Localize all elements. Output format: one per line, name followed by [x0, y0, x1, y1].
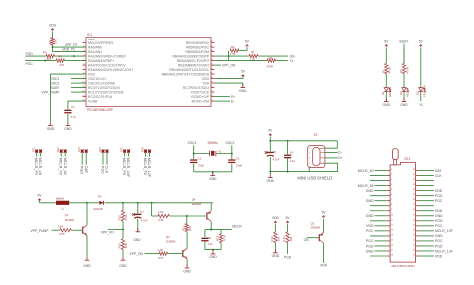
wire: [403, 47, 405, 63]
jumper JP4: [102, 149, 105, 153]
svg-text:R12: R12: [270, 236, 274, 242]
LED D2 RED: [402, 88, 406, 92]
svg-text:C1: C1: [71, 105, 75, 109]
svg-text:C3: C3: [236, 156, 240, 160]
svg-text:22: 22: [210, 68, 212, 70]
svg-text:20: 20: [210, 77, 212, 79]
wire crystal row: [194, 153, 210, 155]
ZX1 pin row 13: [387, 230, 390, 232]
ground: [186, 264, 188, 268]
svg-text:GND: GND: [239, 89, 247, 93]
wire JP5 pin nets: [124, 153, 126, 157]
svg-text:GN: GN: [290, 54, 296, 58]
transistor Q2 2N3904: [182, 250, 184, 257]
resistor R12 10K: [274, 232, 277, 243]
svg-text:BUSY: BUSY: [50, 86, 60, 90]
svg-text:4.7uF: 4.7uF: [273, 157, 280, 161]
svg-text:C5: C5: [273, 150, 277, 154]
svg-text:6: 6: [391, 194, 392, 196]
ZX1 pin row 2: [387, 175, 390, 177]
resistor R11 10K vertical: [186, 216, 188, 224]
svg-text:RB1/AN10/INT1/SCK/SCL: RB1/AN10/INT1/SCK/SCL: [169, 68, 209, 72]
svg-text:10K: 10K: [124, 243, 128, 248]
wire: [385, 47, 387, 63]
svg-text:GND: GND: [366, 189, 374, 193]
jumper JP2: [60, 149, 63, 153]
wire 5V rail: [270, 140, 337, 142]
svg-text:DAT: DAT: [84, 166, 88, 174]
svg-text:OSC1: OSC1: [50, 77, 59, 81]
wire JP1 pin nets: [36, 153, 38, 157]
wire: [420, 47, 422, 87]
ground: [50, 122, 52, 126]
wire R10 to Q1 base: [71, 229, 82, 231]
ground: [242, 84, 244, 88]
svg-text:Q1: Q1: [65, 213, 69, 217]
node VPP_ON label pin23: [214, 64, 221, 66]
svg-text:34: 34: [413, 179, 415, 181]
svg-text:R5: R5: [59, 55, 63, 59]
wire to YL with R3 from pin24: [228, 56, 230, 61]
svg-text:MCLR_12F: MCLR_12F: [147, 158, 151, 178]
svg-text:21: 21: [210, 73, 212, 75]
svg-text:C4: C4: [290, 150, 294, 154]
svg-text:MINI USB SHIELD: MINI USB SHIELD: [297, 176, 332, 181]
wire net VDD_P2 to pin 3: [53, 51, 87, 53]
svg-text:16: 16: [391, 244, 393, 246]
svg-text:24: 24: [413, 229, 415, 231]
ZX1 pin row 1: [387, 170, 390, 172]
svg-text:GND: GND: [383, 103, 391, 107]
svg-text:RC6/TX/CK: RC6/TX/CK: [191, 90, 209, 94]
svg-text:17: 17: [210, 91, 212, 93]
svg-text:JP6: JP6: [141, 147, 145, 152]
ZX1 pin row 4: [387, 185, 390, 187]
node D- wire pin15: [214, 100, 230, 102]
svg-text:VPP_P2: VPP_P2: [65, 43, 78, 47]
resistor R16 10K: [121, 239, 124, 250]
svg-text:D4: D4: [98, 195, 102, 199]
node BUSY wire to pin 11: [71, 87, 86, 89]
capacitor C3 27pF: [231, 154, 233, 160]
transistor Q1 2N3904: [86, 203, 88, 225]
svg-text:RB7/KBI3/PGD: RB7/KBI3/PGD: [186, 41, 210, 45]
svg-text:3: 3: [391, 179, 392, 181]
wire JP4 pin nets: [102, 153, 104, 165]
svg-text:RC0/T1OSO/T13CKI: RC0/T1OSO/T13CKI: [88, 86, 120, 90]
wire pin20 VDD to 5V: [214, 78, 243, 80]
wire to R17: [145, 253, 160, 255]
svg-text:23: 23: [210, 64, 212, 66]
node OSC2 wire to pin 10: [71, 82, 86, 84]
svg-text:Q4: Q4: [192, 197, 196, 201]
svg-text:GND: GND: [64, 127, 72, 131]
ground: [137, 228, 139, 232]
svg-text:26: 26: [210, 50, 212, 52]
wire R14 to Q4 base: [169, 215, 207, 217]
svg-text:PGC: PGC: [366, 229, 374, 233]
svg-text:VPP_ON: VPP_ON: [222, 63, 236, 67]
svg-text:4.7u: 4.7u: [71, 115, 77, 119]
svg-text:D+: D+: [231, 95, 235, 99]
svg-text:VSS: VSS: [88, 72, 96, 76]
svg-text:OSC2: OSC2: [226, 141, 235, 145]
ZX1 pin row 12: [387, 225, 390, 227]
resistor R9 10K pullup: [51, 38, 54, 46]
crystal X1 symbol: [210, 151, 216, 157]
svg-text:27pF: 27pF: [236, 164, 242, 168]
svg-text:MCLR_P2: MCLR_P2: [59, 158, 63, 176]
node VPP_FD label wire: [108, 228, 123, 230]
svg-text:470R: 470R: [388, 67, 392, 74]
resistor R15 4.7K: [121, 210, 124, 221]
ground: [86, 256, 88, 260]
svg-text:RA1/AN1: RA1/AN1: [88, 50, 102, 54]
wire 5V to L1: [40, 202, 57, 204]
jumper JP5: [123, 149, 126, 153]
svg-text:24: 24: [210, 59, 212, 61]
wire Q4 collector down: [210, 221, 212, 229]
svg-text:X2: X2: [314, 133, 318, 137]
svg-text:36: 36: [413, 169, 415, 171]
svg-text:GND: GND: [47, 127, 55, 131]
svg-text:GND: GND: [183, 269, 191, 273]
wire pin19 VSS to ground: [214, 83, 242, 87]
svg-text:1: 1: [83, 41, 84, 43]
wire VUSB pin14 to C1: [68, 101, 86, 110]
svg-text:18: 18: [210, 86, 212, 88]
svg-text:Q2: Q2: [166, 235, 170, 239]
svg-text:GND: GND: [267, 179, 275, 183]
capacitor C1 4.7u: [64, 110, 71, 111]
svg-text:8: 8: [391, 204, 392, 206]
svg-text:R4: R4: [43, 50, 47, 54]
wire JP6 pin nets: [145, 153, 147, 157]
svg-text:RB6/KBI2/PGC: RB6/KBI2/PGC: [186, 45, 210, 49]
svg-text:13: 13: [391, 229, 393, 231]
svg-text:VPP_PUMP: VPP_PUMP: [31, 229, 50, 233]
resistor R6 470R: [402, 63, 405, 73]
svg-text:R10: R10: [60, 232, 65, 236]
wire pin25 to GN with R1: [214, 55, 249, 57]
capacitor C5 4.7uF polarized: [269, 141, 271, 152]
svg-text:1.0K: 1.0K: [158, 248, 164, 252]
ground: [403, 98, 405, 102]
wire JP3 pin nets: [81, 153, 83, 165]
svg-text:MCLR_10F: MCLR_10F: [435, 229, 453, 233]
svg-text:RED: RED: [406, 91, 410, 97]
svg-text:7: 7: [83, 68, 84, 70]
svg-text:1.0u: 1.0u: [208, 242, 214, 246]
svg-text:RA0/AN0: RA0/AN0: [88, 45, 102, 49]
svg-text:D-: D-: [231, 99, 234, 103]
ZX1 pin row 9: [387, 210, 390, 212]
svg-text:RC5/D+/VP: RC5/D+/VP: [191, 95, 209, 99]
ZX1 pin row 18: [387, 255, 390, 257]
svg-text:D3: D3: [416, 91, 420, 95]
svg-text:GND: GND: [366, 249, 374, 253]
svg-text:VDD: VDD: [272, 216, 280, 220]
resistor R4 470: [46, 54, 55, 57]
svg-text:1.5K: 1.5K: [230, 52, 236, 56]
connector ZX1 ZIF socket body: [390, 163, 416, 263]
svg-text:16: 16: [210, 95, 212, 97]
wire VPP rail: [104, 202, 213, 204]
svg-text:MCLR: MCLR: [232, 225, 242, 229]
svg-text:RB4/AN11/KBI0/CSSPP: RB4/AN11/KBI0/CSSPP: [173, 54, 210, 58]
wire bottom join: [205, 249, 221, 251]
ZX1 pin row 17: [387, 250, 390, 252]
svg-text:YL: YL: [290, 59, 294, 63]
wire VBUS jog right side: [325, 141, 337, 148]
svg-text:21: 21: [413, 244, 415, 246]
svg-text:RC1/T1OSI/CCP2/UOE: RC1/T1OSI/CCP2/UOE: [88, 90, 125, 94]
svg-text:35: 35: [413, 174, 415, 176]
resistor R14 1.0K: [158, 214, 169, 217]
svg-text:PGD: PGD: [435, 244, 443, 248]
svg-text:OSC2/CLKO/RA6: OSC2/CLKO/RA6: [88, 81, 115, 85]
svg-text:PGD: PGD: [80, 166, 84, 174]
svg-text:680uH: 680uH: [56, 196, 64, 200]
svg-text:1.6K: 1.6K: [58, 225, 64, 229]
ground: [212, 172, 214, 176]
ground: [385, 98, 387, 102]
svg-text:MCLR_P2: MCLR_P2: [122, 158, 126, 176]
svg-text:GND: GND: [133, 238, 141, 242]
svg-text:12: 12: [391, 224, 393, 226]
svg-text:28: 28: [210, 41, 212, 43]
svg-text:MCLR_P2: MCLR_P2: [143, 158, 147, 176]
svg-text:9: 9: [391, 209, 392, 211]
svg-text:GND: GND: [209, 255, 217, 259]
wire R11 to Q2 collector: [186, 232, 188, 249]
svg-text:11: 11: [391, 219, 393, 221]
diode D4 1N4148: [99, 201, 103, 205]
svg-text:L1: L1: [61, 207, 64, 211]
svg-text:MCLR_18: MCLR_18: [358, 184, 374, 188]
svg-text:GND: GND: [83, 264, 91, 268]
svg-text:PGD: PGD: [366, 244, 374, 248]
wire Q1 emitter to ground: [86, 236, 88, 257]
svg-text:RA5/AN4/SS/HLVDIN/C2OUT: RA5/AN4/SS/HLVDIN/C2OUT: [88, 68, 133, 72]
svg-text:23: 23: [413, 234, 415, 236]
svg-text:1: 1: [391, 169, 392, 171]
wire VSS pin8 to ground: [51, 74, 87, 122]
svg-text:R13: R13: [282, 236, 286, 242]
svg-text:OSC1: OSC1: [188, 141, 197, 145]
svg-text:C8: C8: [208, 236, 212, 240]
wire to R10: [52, 229, 60, 231]
svg-text:470R: 470R: [267, 65, 273, 69]
svg-text:VDD: VDD: [366, 224, 374, 228]
svg-text:31: 31: [413, 194, 415, 196]
svg-text:25: 25: [413, 224, 415, 226]
op-amp U1 main MCU IC1 PIC18F2550 box: [86, 38, 211, 107]
ZX1 pin row 8: [387, 205, 390, 207]
svg-text:470: 470: [60, 63, 65, 67]
svg-text:R9: R9: [48, 40, 52, 44]
svg-text:RC2/CCP1/P1A: RC2/CCP1/P1A: [88, 95, 113, 99]
wire rail to divider: [122, 203, 124, 211]
wire Q3 emitter to 5V: [323, 219, 325, 233]
resistor R17 1.0K: [159, 252, 168, 255]
svg-text:OSC1/CLKI: OSC1/CLKI: [88, 77, 106, 81]
svg-text:22: 22: [413, 239, 415, 241]
svg-text:R1: R1: [251, 50, 255, 54]
svg-text:13: 13: [82, 95, 84, 97]
svg-text:JP1: JP1: [32, 147, 36, 152]
svg-text:VDD: VDD: [320, 263, 328, 267]
svg-text:R7: R7: [381, 69, 385, 73]
svg-text:VDD: VDD: [435, 209, 443, 213]
svg-text:2N3906: 2N3906: [311, 225, 321, 229]
svg-text:4.7K: 4.7K: [124, 214, 128, 220]
ground: [67, 122, 69, 126]
svg-text:PGC: PGC: [100, 166, 104, 174]
svg-text:RC4/D-/VM: RC4/D-/VM: [192, 99, 210, 103]
svg-text:27: 27: [210, 46, 212, 48]
svg-text:IC1: IC1: [87, 33, 92, 37]
node D+ wire: [325, 157, 338, 159]
svg-text:MCLR_10F: MCLR_10F: [126, 158, 130, 178]
node GN wire to Q3 base: [307, 237, 320, 239]
resistor R19 4.7K vertical: [220, 230, 222, 234]
svg-text:MCLR_18: MCLR_18: [38, 158, 42, 175]
svg-text:VDD: VDD: [435, 254, 443, 258]
svg-text:2N3906: 2N3906: [192, 202, 202, 206]
svg-text:MCLR/VPP/RE3: MCLR/VPP/RE3: [88, 41, 113, 45]
svg-text:19: 19: [210, 82, 212, 84]
svg-text:YL: YL: [419, 103, 423, 107]
svg-text:R3: R3: [269, 56, 273, 60]
ZX1 pin row 7: [387, 200, 390, 202]
wire net VPP_P2 to pin 2: [53, 46, 87, 48]
svg-text:10: 10: [391, 214, 393, 216]
wire L1 to D4: [69, 202, 99, 204]
svg-text:VDD: VDD: [435, 189, 443, 193]
svg-text:RB0/AN12/INT0/FLT0/SDI/SDA: RB0/AN12/INT0/FLT0/SDI/SDA: [162, 72, 210, 76]
svg-text:10K: 10K: [188, 226, 192, 231]
svg-text:PGC: PGC: [366, 239, 374, 243]
svg-text:27: 27: [413, 214, 415, 216]
capacitor C4 1.0u: [287, 141, 289, 155]
wire R17 to Q2 base: [168, 253, 183, 255]
svg-text:BUSY: BUSY: [400, 39, 410, 43]
svg-text:PIC18F2550-I/SP: PIC18F2550-I/SP: [87, 108, 114, 112]
svg-text:JP2: JP2: [56, 147, 60, 152]
wire pin4 to ground rail: [325, 163, 338, 171]
svg-text:VDD: VDD: [202, 77, 210, 81]
svg-text:PGD: PGD: [435, 194, 443, 198]
svg-text:2: 2: [391, 174, 392, 176]
svg-text:PGD: PGD: [435, 219, 443, 223]
svg-text:CLK: CLK: [105, 166, 109, 174]
jumper JP6: [144, 149, 147, 153]
svg-text:C2: C2: [198, 156, 202, 160]
svg-text:MCLR_12F: MCLR_12F: [435, 249, 453, 253]
ZX1 pin row 15: [387, 240, 390, 242]
svg-text:GND: GND: [366, 199, 374, 203]
svg-text:RA4/T0CKI/C1OUT/RCV: RA4/T0CKI/C1OUT/RCV: [88, 63, 126, 67]
svg-text:PGD: PGD: [284, 256, 292, 260]
svg-text:VDD: VDD: [49, 23, 57, 27]
svg-text:33: 33: [413, 184, 415, 186]
svg-text:24D-1280-00-0602J: 24D-1280-00-0602J: [391, 264, 415, 268]
resistor R2 1.5K pullup to 5V: [228, 51, 230, 57]
svg-text:4: 4: [391, 184, 392, 186]
svg-text:VPP_FD: VPP_FD: [101, 230, 114, 234]
svg-text:GN: GN: [304, 238, 310, 242]
svg-text:VPP_ON: VPP_ON: [130, 252, 144, 256]
wire JP2 pin nets: [60, 153, 62, 157]
IC1 pins and pin names: [83, 42, 86, 44]
svg-text:30: 30: [413, 199, 415, 201]
ground: [269, 172, 271, 174]
node OSC1 wire to pin 9: [71, 78, 86, 80]
svg-text:D2: D2: [399, 91, 403, 95]
svg-text:17: 17: [391, 249, 393, 251]
jumper JP3: [81, 149, 84, 153]
svg-text:GND: GND: [400, 103, 408, 107]
wire rail to R14: [151, 203, 153, 216]
svg-text:6: 6: [83, 64, 84, 66]
resistor R1 2.2K: [249, 54, 258, 57]
svg-text:RB2/AN8/INT2/VMO: RB2/AN8/INT2/VMO: [178, 63, 209, 67]
ZIF lever: [392, 149, 398, 160]
svg-text:X1: X1: [218, 150, 222, 154]
wire bottom bus to ground: [194, 171, 232, 173]
ZX1 pin row 5: [387, 190, 390, 192]
svg-text:D+: D+: [338, 156, 342, 160]
ground: [212, 250, 214, 254]
svg-text:R14: R14: [159, 218, 164, 222]
svg-text:470R: 470R: [405, 67, 409, 74]
svg-text:RB5/KBI1/PGM: RB5/KBI1/PGM: [185, 50, 209, 54]
wire Q2 emitter to ground: [186, 259, 188, 268]
svg-text:MCLR_40: MCLR_40: [63, 158, 67, 175]
svg-text:RC7/RX/DT/SDO: RC7/RX/DT/SDO: [183, 86, 210, 90]
svg-text:MCLR_P2: MCLR_P2: [34, 158, 38, 176]
svg-text:29: 29: [413, 204, 415, 206]
svg-text:PGC: PGC: [435, 199, 443, 203]
wire shield to ground rail: [308, 168, 310, 172]
svg-text:1.0u: 1.0u: [290, 159, 296, 163]
svg-text:PGC: PGC: [26, 62, 34, 66]
svg-text:GND: GND: [119, 264, 127, 268]
node D+ wire pin16: [214, 96, 230, 98]
svg-text:18: 18: [391, 255, 393, 257]
wire Q3 collector to VDD label: [323, 243, 325, 263]
svg-text:19: 19: [413, 255, 415, 257]
resistor R5 470: [56, 59, 65, 62]
svg-text:28: 28: [413, 209, 415, 211]
svg-text:RB3/AN9/CCP2/VPO: RB3/AN9/CCP2/VPO: [177, 59, 210, 63]
node VPP_PUMP wire to pin 12: [71, 91, 86, 93]
ZX1 pin row 3: [387, 180, 390, 182]
ZX1 pin row 14: [387, 235, 390, 237]
svg-text:JP3: JP3: [77, 147, 81, 152]
ground: [274, 249, 276, 253]
jumper JP1: [35, 149, 38, 153]
ground: [122, 256, 124, 260]
wire MCLR node: [205, 229, 232, 231]
inductor L1 680uH: [56, 201, 69, 205]
svg-text:25: 25: [210, 55, 212, 57]
svg-text:4.7uF: 4.7uF: [141, 218, 148, 222]
svg-text:PGC: PGC: [435, 224, 443, 228]
svg-text:JP4: JP4: [98, 147, 102, 152]
svg-text:20: 20: [413, 249, 415, 251]
